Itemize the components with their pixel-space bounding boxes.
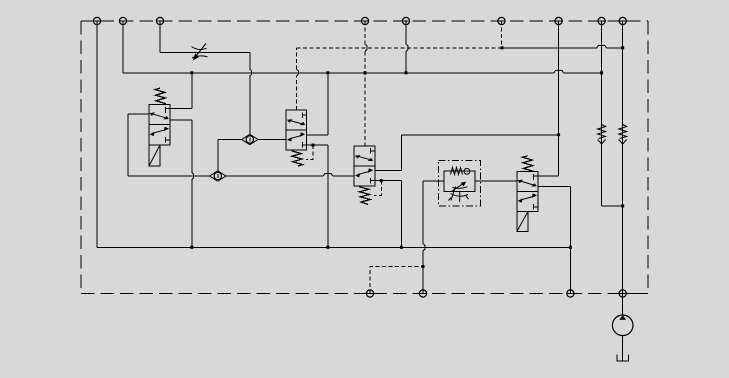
port circle top 5 bbox=[402, 17, 409, 24]
dashed pilot: top port 4 down to valve V3 top bbox=[364, 21, 366, 44]
wire: regulator RV1 left port down to bottom port bbox=[423, 181, 444, 294]
junction dot valve V3 exhaust node bbox=[380, 179, 383, 182]
junction dot valve V2 exhaust node bbox=[312, 144, 315, 147]
wire: valve V3 right-middle to vertical and across to x=558.6 bbox=[375, 135, 559, 171]
junction dot pilot node y=47.8 bbox=[501, 46, 504, 49]
valve V4 body bbox=[517, 172, 538, 212]
junction dot bottom bus 4 bbox=[569, 246, 572, 249]
valve V3 body bbox=[354, 146, 375, 186]
pressure regulator RV1 body bbox=[444, 171, 475, 192]
wire: main pilot bus y=72.8 bbox=[123, 70, 602, 72]
wire: main supply riser x=622.7 bbox=[622, 21, 624, 294]
port circle bottom 2 bbox=[419, 290, 426, 297]
port circle top 4 bbox=[361, 17, 368, 24]
wire: valve V1 right-top up to bus bbox=[170, 73, 192, 109]
junction dot relief jog bbox=[621, 204, 624, 207]
valve V1 bottom cell glyphs bbox=[150, 127, 171, 143]
junction dot x=558.6/y=134.8 bbox=[557, 133, 560, 136]
junction dot at bus/top port 5 bbox=[405, 71, 408, 74]
junction dot bottom bus 1 bbox=[190, 246, 193, 249]
junction dot at bus end/relief line bbox=[600, 71, 603, 74]
wire: top port 5 down to bus bbox=[406, 21, 408, 73]
relief spring S1 on line x=601.6 bbox=[598, 125, 606, 145]
dashed pilot: valve V2 top pilot up over bus and right bbox=[297, 48, 503, 110]
port circle bottom 1 bbox=[366, 290, 373, 297]
wire: check valve CV2 right to valve V3 left port bbox=[226, 174, 354, 176]
relief spring S2 on line x=622.7 bbox=[619, 125, 627, 145]
valve V4 spring (top) bbox=[523, 156, 534, 172]
port circle top 2 bbox=[119, 17, 126, 24]
wire: valve V3 right-bottom down to bus bbox=[370, 181, 401, 248]
valve V3 bottom cell glyphs bbox=[355, 168, 373, 183]
wire: from top port 2 down bbox=[122, 21, 124, 73]
valve V3 spring (bottom) bbox=[359, 187, 370, 205]
wire: check valve CV2 left loop to valve V1 left port bbox=[128, 114, 210, 176]
wire: regulator RV1 right port to valve V4 left port bbox=[475, 180, 517, 182]
valve V1 spring (top) bbox=[155, 88, 166, 104]
check valve CV2 bbox=[210, 171, 226, 181]
port circle top 3 bbox=[156, 17, 163, 24]
port circle top 6 bbox=[498, 17, 505, 24]
throttle valve FC1 bbox=[192, 44, 208, 61]
junction dot riser/y=47.8 bbox=[621, 46, 624, 49]
valve V2 spring (bottom) bbox=[292, 151, 303, 166]
wire: from top port 1 down and bottom bus bbox=[97, 21, 570, 247]
valve V1 top cell glyphs bbox=[150, 107, 171, 119]
wire: check valve CV1 left down to check valve CV2 top bbox=[218, 140, 242, 179]
valve V4 manual override box bbox=[517, 211, 528, 231]
pressure regulator RV1 spring and knob bbox=[451, 168, 470, 175]
dashed pilot: top port 6 down bbox=[501, 21, 503, 48]
wire: valve V4 right-top to riser x=558.6 bbox=[538, 175, 559, 177]
junction dot bottom bus 3 bbox=[400, 246, 403, 249]
wire: bottom border solid segment to right border corner bbox=[623, 293, 648, 295]
dashed pilot: bottom port to regulator drain line bbox=[370, 267, 423, 294]
wire: valve V2 right-bottom down to bus bbox=[302, 145, 328, 247]
wire: valve V2 right-middle up to bus bbox=[307, 73, 328, 135]
valve V2 top cell glyphs bbox=[287, 112, 307, 125]
dashed pilot: valve V2 feedback L bbox=[306, 145, 313, 160]
pressure regulator RV1 relief drain bbox=[449, 187, 469, 203]
valve V4 top cell glyphs bbox=[518, 174, 539, 186]
valve V3 top cell glyphs bbox=[355, 148, 375, 161]
enclosure dashed border bbox=[81, 21, 648, 294]
valve V4 bottom cell glyphs bbox=[518, 193, 539, 209]
junction dot at bus/pilot V3 bbox=[364, 71, 367, 74]
pressure regulator RV1 outer dash-dot box bbox=[439, 160, 481, 206]
wire: from top port 3 through throttle to check valve CV1 bbox=[160, 21, 252, 142]
wire: valve V4 right-bottom down to bottom port bbox=[538, 187, 570, 294]
port circle top 8 bbox=[598, 17, 605, 24]
valve V2 bottom cell glyphs bbox=[287, 132, 305, 147]
port circle bottom 4 bbox=[619, 290, 626, 297]
port circle bottom 3 bbox=[567, 290, 574, 297]
port circle top 9 bbox=[619, 17, 626, 24]
wire: check valve CV1 right to valve V2 left port bbox=[258, 139, 286, 141]
port circle top 1 bbox=[93, 17, 100, 24]
junction dot at bus/valve V1 feed bbox=[190, 71, 193, 74]
pressure regulator RV1 flow arrow bbox=[452, 182, 467, 191]
valve V1 body bbox=[149, 105, 170, 146]
valve V2 body bbox=[286, 110, 307, 150]
valve V1 manual override box bbox=[149, 145, 160, 166]
junction dot bottom bus 2 bbox=[326, 246, 329, 249]
junction dot at bus/valve V2 feed bbox=[326, 71, 329, 74]
check valve CV1 bbox=[242, 134, 258, 144]
junction dot drain dashed node bbox=[422, 265, 425, 268]
wire: top port 7 down to valve V4 right-top port bbox=[558, 21, 560, 176]
wire: valve V1 right-bottom down to bus bbox=[170, 120, 194, 248]
dashed pilot: valve V3 feedback L bbox=[374, 181, 381, 196]
wire: solid segment y=47.8 from node to riser bbox=[502, 45, 623, 47]
wire stubs through border ports bbox=[93, 20, 101, 22]
wire: relief line x=601.6 with spring, jog to x=622.7 bbox=[602, 21, 623, 206]
port circle top 7 bbox=[555, 17, 562, 24]
compressed air source M1 bbox=[612, 294, 633, 362]
